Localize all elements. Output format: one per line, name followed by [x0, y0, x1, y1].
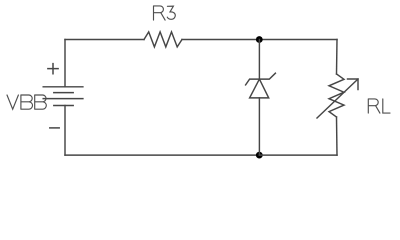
wire bottom rail left segment: [65, 154, 259, 156]
wire left rail lower (battery negative to bottom rail): [64, 106, 66, 156]
battery polarity plus sign: [48, 64, 58, 74]
label RL letter R: [368, 99, 380, 113]
node junction top: [256, 36, 263, 43]
rheostat RL zigzag: [329, 74, 344, 117]
zener diode anode triangle: [250, 79, 269, 98]
resistor R3: [144, 32, 182, 47]
wire middle branch lower (zener anode to bottom junction): [258, 98, 260, 155]
label VBB letter V: [7, 95, 18, 109]
wire top rail right segment: [259, 39, 337, 41]
wire top rail middle segment: [182, 39, 259, 41]
zener diode cathode bar with bent tails: [246, 73, 276, 85]
wire left rail upper (battery positive to top rail): [64, 40, 66, 87]
label R3 letter R: [154, 6, 166, 20]
battery VBB plate 4 short (negative): [54, 105, 73, 107]
wire middle branch upper (top junction to zener cathode): [258, 40, 260, 80]
wire right rail upper: [336, 40, 339, 75]
battery VBB plate 1 long (positive): [43, 86, 83, 88]
node junction bottom: [256, 152, 263, 159]
wire top rail left segment: [65, 39, 144, 41]
wire right rail lower: [336, 117, 339, 155]
label VBB letter B (first): [21, 95, 33, 109]
rheostat RL arrowhead: [348, 79, 359, 90]
rheostat RL arrow shaft: [317, 79, 358, 118]
label VBB letter B (second): [35, 95, 47, 109]
battery polarity minus sign: [50, 127, 59, 129]
label RL letter L: [383, 99, 390, 113]
battery VBB plate 3 long: [43, 98, 83, 100]
label R3 digit 3: [167, 6, 175, 19]
wire bottom rail right segment: [259, 154, 337, 156]
battery VBB plate 2 short: [54, 92, 73, 94]
